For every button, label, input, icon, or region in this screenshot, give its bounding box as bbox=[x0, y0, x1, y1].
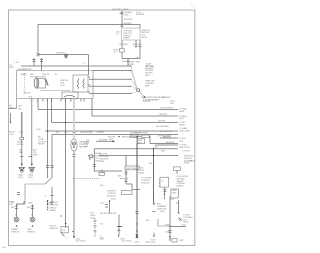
svg-text:EGR: EGR bbox=[165, 225, 170, 227]
module box M bbox=[160, 177, 169, 187]
svg-text:BLK/WHT: BLK/WHT bbox=[120, 44, 129, 46]
wire y66 bbox=[21, 65, 131, 67]
connector ticks on wire bbox=[93, 165, 96, 167]
arrow connector dark bbox=[113, 140, 116, 142]
camshaft reference sensor circle bbox=[30, 217, 35, 222]
inline label box 1 bbox=[131, 135, 139, 137]
svg-text:LINK CONN: LINK CONN bbox=[179, 130, 190, 132]
svg-text:(2.4L): (2.4L) bbox=[179, 118, 184, 120]
wires right: five lines converge bbox=[89, 78, 131, 80]
PCM box corner bbox=[16, 184, 45, 204]
svg-text:SENSOR: SENSOR bbox=[50, 228, 59, 230]
ground arrow G101 bbox=[21, 164, 23, 167]
svg-text:RELAY: RELAY bbox=[38, 143, 45, 146]
wire below connector box bbox=[125, 170, 127, 177]
arrow down left margin bbox=[10, 113, 12, 122]
crankshaft position sensor circle bbox=[14, 217, 19, 222]
wire pin drop to line 1 bbox=[37, 99, 39, 110]
wire vertical x153 dark bbox=[153, 149, 155, 203]
ground X mark G104 bbox=[136, 235, 138, 239]
connector ticks bbox=[125, 172, 128, 174]
svg-text:BLK/WHT: BLK/WHT bbox=[136, 14, 145, 16]
svg-text:ONLY): ONLY) bbox=[183, 222, 189, 224]
svg-text:RED/WHT: RED/WHT bbox=[166, 142, 176, 144]
wire horizontal to ignition coil bbox=[38, 54, 88, 56]
node junction on bus bbox=[121, 24, 122, 25]
dashed divider line bbox=[73, 178, 100, 180]
wire vertical x74 to ground bbox=[73, 170, 75, 236]
wire down to node C101 bbox=[127, 59, 129, 67]
wire x119 to ground G103 bbox=[118, 215, 120, 236]
svg-text:TO PCM: TO PCM bbox=[182, 151, 190, 153]
wire x109 down bbox=[109, 201, 111, 213]
connector ticks on verticals bbox=[46, 166, 53, 168]
wire sensor ground stub bbox=[47, 200, 49, 205]
relay box ASD bbox=[138, 139, 145, 144]
shielded band x74 bbox=[73, 99, 75, 140]
svg-text:SENSOR: SENSOR bbox=[27, 231, 36, 233]
wire long line y148 bbox=[94, 148, 178, 150]
dashed internal shaft line bbox=[24, 73, 26, 95]
connector ticks x52 bbox=[51, 196, 54, 203]
wire jog right bbox=[126, 183, 132, 185]
ground arrow G102 bbox=[31, 164, 33, 167]
wire main top bus bbox=[38, 24, 140, 26]
knock sensor box bbox=[61, 227, 68, 233]
dashed link in ICM cluster bbox=[120, 177, 128, 184]
svg-text:BLK/YEL: BLK/YEL bbox=[158, 121, 167, 123]
wire vertical long to PCM bbox=[47, 99, 49, 179]
connector ticks pair above coil area bbox=[33, 58, 44, 71]
shielded band left column bbox=[21, 112, 23, 138]
svg-text:CRANK: CRANK bbox=[20, 73, 27, 76]
fan of wires converging bbox=[131, 66, 137, 93]
wire long line 1 bbox=[38, 108, 178, 110]
svg-text:(2.0L): (2.0L) bbox=[60, 85, 65, 87]
svg-text:(2.4L ONLY): (2.4L ONLY) bbox=[76, 241, 87, 243]
svg-text:WHT BLK/RED: WHT BLK/RED bbox=[80, 132, 93, 134]
svg-text:FILTER: FILTER bbox=[17, 144, 24, 146]
svg-text:RED: RED bbox=[19, 152, 24, 154]
node dot x170 bbox=[169, 226, 170, 227]
wire vertical x52 bbox=[51, 135, 53, 179]
svg-text:GRY BLK/WHT: GRY BLK/WHT bbox=[160, 108, 174, 110]
svg-text:PAIR: PAIR bbox=[145, 84, 150, 87]
wire y71.5 bbox=[93, 70, 131, 72]
connector ticks pair bbox=[20, 156, 31, 158]
wire with arrow connector bbox=[96, 140, 113, 142]
svg-text:WIRING: WIRING bbox=[177, 186, 185, 188]
svg-text:PICKUP: PICKUP bbox=[24, 93, 32, 95]
wire jog down bbox=[131, 184, 133, 189]
svg-text:DRAIN: DRAIN bbox=[50, 209, 56, 212]
svg-text:FUSE: FUSE bbox=[184, 163, 190, 165]
wire drop to connector box bbox=[125, 156, 127, 166]
arrow end x153 bbox=[153, 203, 155, 206]
svg-text:PWR TR: PWR TR bbox=[42, 74, 50, 76]
svg-text:START: START bbox=[123, 37, 130, 40]
svg-text:PUMP: PUMP bbox=[179, 111, 185, 113]
svg-text:WHT/BLU: WHT/BLU bbox=[127, 61, 136, 63]
small connector box bbox=[99, 172, 104, 175]
node inline connector dot bbox=[118, 136, 119, 137]
component dark dash bbox=[117, 226, 122, 228]
capacitor noise condenser C2 bbox=[90, 155, 93, 158]
svg-text:BLK/WHT: BLK/WHT bbox=[57, 53, 66, 55]
svg-text:BLK RED/YEL: BLK RED/YEL bbox=[160, 131, 173, 133]
shield drain arrows bbox=[47, 207, 49, 209]
svg-text:ONLY: ONLY bbox=[100, 172, 106, 174]
corner mark top-right bbox=[190, 2, 196, 9]
wire from loop bbox=[139, 91, 144, 96]
svg-text:BLK WHT/RED: BLK WHT/RED bbox=[156, 126, 170, 128]
distributor box bbox=[17, 71, 93, 109]
wire end junction dots bbox=[130, 65, 131, 94]
wire to cam sensor bbox=[32, 205, 34, 218]
arrow below box M bbox=[164, 194, 166, 197]
svg-text:RELAY: RELAY bbox=[179, 123, 186, 126]
coil pins bbox=[88, 77, 90, 92]
svg-text:GRY/BLK: GRY/BLK bbox=[159, 114, 168, 116]
wire from bus down left bbox=[37, 25, 39, 55]
svg-text:RED/BLK: RED/BLK bbox=[163, 137, 172, 139]
wire stub right margin y138 bbox=[160, 137, 178, 139]
wire to right margin y143 bbox=[150, 136, 178, 143]
svg-text:(2.4L): (2.4L) bbox=[90, 217, 95, 219]
inline label box 2 bbox=[142, 135, 150, 137]
wire vertical x65 upper bbox=[65, 99, 67, 123]
wire joining bbox=[122, 58, 140, 60]
wire line y134 bbox=[52, 134, 178, 136]
ground arrow x170 bbox=[169, 240, 171, 242]
wire below PCM x52 bbox=[51, 187, 53, 205]
svg-text:BLK BLK/WHT BLK: BLK BLK/WHT BLK bbox=[100, 213, 117, 215]
pins under distributor box bbox=[32, 99, 84, 102]
svg-text:(2.0L): (2.0L) bbox=[18, 177, 23, 179]
ground stub G105 bbox=[153, 233, 155, 236]
wire from line to ignition control module bbox=[94, 149, 122, 171]
svg-text:MODULE: MODULE bbox=[141, 182, 150, 184]
svg-text:CMP: CMP bbox=[28, 203, 33, 205]
wire pin drop to line 2 bbox=[91, 99, 93, 117]
distributor rotor ellipse bbox=[34, 78, 39, 88]
svg-text:ONLY: ONLY bbox=[9, 67, 15, 69]
dashed connector vertical bbox=[94, 218, 97, 237]
ground arrow G102b bbox=[73, 236, 75, 239]
wire down from y54 bbox=[88, 55, 90, 76]
wire long line 2 bbox=[92, 115, 178, 117]
svg-text:(2.4L): (2.4L) bbox=[151, 242, 156, 244]
twisted loop symbol bbox=[137, 89, 140, 92]
svg-text:SENSOR: SENSOR bbox=[79, 146, 88, 148]
wire stub right margin y145 bbox=[155, 144, 178, 146]
wire to camshaft sensor bbox=[73, 99, 75, 140]
svg-text:INJECTORS: INJECTORS bbox=[179, 147, 190, 149]
ticks below box M bbox=[164, 190, 167, 192]
svg-text:(2.4L): (2.4L) bbox=[160, 211, 165, 213]
wire ignition switch output right bbox=[139, 40, 141, 59]
connector box distributor bbox=[125, 166, 139, 170]
svg-text:2.0L ONLY: 2.0L ONLY bbox=[162, 97, 172, 99]
small box T bbox=[174, 167, 181, 171]
node junction x153 y155 bbox=[153, 155, 154, 156]
wire below fuse bbox=[121, 52, 123, 58]
node dot x109 bbox=[109, 200, 110, 201]
left edge tick wire bbox=[9, 107, 17, 109]
wire below sensor bbox=[73, 151, 75, 154]
node dots x137 bbox=[136, 223, 137, 224]
wire vertical x170 bbox=[169, 197, 171, 238]
ground label box bbox=[172, 239, 177, 243]
ground arrow G103 bbox=[118, 235, 120, 237]
PCM pin ticks bbox=[17, 193, 20, 195]
svg-text:BLK/WHT: BLK/WHT bbox=[124, 19, 133, 21]
svg-text:RED: RED bbox=[161, 150, 166, 152]
wire jog right 2 bbox=[132, 188, 140, 190]
wire in band bbox=[21, 112, 23, 138]
wire continues down bbox=[73, 156, 75, 170]
connector ticks near splice bbox=[37, 53, 40, 55]
fuse F20 bbox=[120, 49, 125, 53]
wire vertical x65 to knock sensor bbox=[65, 122, 67, 228]
wire x178 short bbox=[178, 200, 180, 212]
wire horizontal y226 bbox=[170, 225, 186, 227]
svg-text:DIST CONN: DIST CONN bbox=[126, 168, 137, 170]
wire stub C112 bbox=[164, 197, 166, 200]
node dark dot bbox=[144, 96, 146, 98]
arrow x178 bbox=[178, 212, 180, 215]
splice symbol S101 bbox=[65, 54, 68, 57]
ground hatch symbols bbox=[18, 167, 35, 172]
small box under coil bbox=[62, 92, 78, 99]
ignition switch dashed box bbox=[121, 25, 123, 29]
box A right edge bbox=[92, 71, 94, 99]
wire below box M bbox=[164, 188, 166, 195]
module box N power ground bbox=[171, 189, 178, 198]
wire ignition switch output left bbox=[121, 40, 123, 49]
wire to crank sensor bbox=[16, 204, 18, 217]
connector ticks x137 bbox=[136, 212, 139, 214]
svg-text:GND: GND bbox=[172, 192, 177, 194]
connector ticks sensors bbox=[15, 206, 34, 209]
svg-text:RELAY: RELAY bbox=[139, 171, 146, 174]
dark tick bbox=[88, 155, 89, 157]
svg-text:SENSOR: SENSOR bbox=[11, 231, 20, 233]
rotor arrow bbox=[45, 79, 48, 85]
svg-text:(2.0L): (2.0L) bbox=[111, 199, 116, 201]
svg-text:HOT AT ALL TIMES: HOT AT ALL TIMES bbox=[112, 8, 129, 11]
connector ticks x170 bbox=[169, 231, 172, 233]
pickup module box bbox=[38, 79, 46, 89]
svg-text:GROUND: GROUND bbox=[50, 204, 59, 206]
svg-text:ONLY): ONLY) bbox=[141, 37, 147, 39]
svg-text:(2.0L): (2.0L) bbox=[28, 177, 33, 179]
node dot bbox=[65, 223, 66, 224]
ground stub x170 bbox=[169, 237, 171, 240]
wire below noise filter bbox=[21, 140, 23, 164]
camshaft position sensor oval bbox=[71, 139, 77, 151]
wire long line y155 bbox=[99, 155, 178, 157]
PCM chamfer wire entry bbox=[45, 178, 52, 184]
box corner EGR bbox=[158, 219, 170, 226]
noise filter box bbox=[20, 138, 24, 140]
svg-text:MODULE: MODULE bbox=[107, 195, 116, 197]
svg-text:(2.0L ONLY): (2.0L ONLY) bbox=[122, 241, 133, 243]
fusible link FL bbox=[120, 13, 121, 15]
wire vertical to ground G102 bbox=[31, 99, 33, 164]
wire pin drop to line 3 bbox=[51, 99, 53, 123]
X connector marks bbox=[179, 218, 182, 221]
wire vertical x137 long bbox=[136, 144, 138, 238]
wire horizontal PCM bottom bbox=[17, 203, 25, 205]
ICM sub box bbox=[122, 191, 133, 195]
wire long line 3 bbox=[52, 121, 179, 123]
wire long line 4 bbox=[45, 130, 178, 132]
svg-text:WHT/GRN: WHT/GRN bbox=[139, 133, 149, 135]
node junction bbox=[47, 130, 48, 131]
svg-text:GRN: GRN bbox=[72, 132, 77, 134]
svg-text:GRN: GRN bbox=[33, 154, 38, 156]
svg-text:BLK/WHT: BLK/WHT bbox=[99, 140, 108, 142]
ignition coil inner box bbox=[73, 75, 88, 92]
node junction bbox=[65, 122, 66, 123]
page border bbox=[9, 10, 195, 246]
node dot bottom x170 bbox=[169, 236, 171, 238]
svg-text:BLU/WHT: BLU/WHT bbox=[133, 44, 142, 46]
wire stub with connector ticks bbox=[135, 40, 137, 48]
svg-text:BLK/YEL: BLK/YEL bbox=[143, 101, 152, 103]
